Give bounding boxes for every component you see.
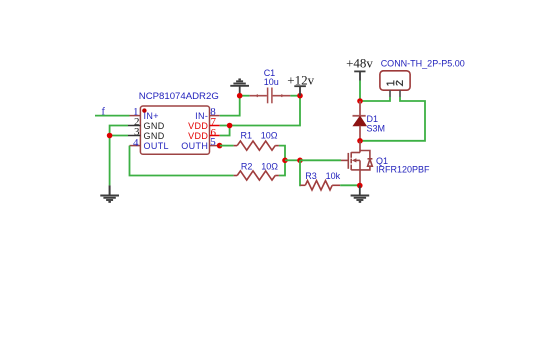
svg-text:GND: GND (144, 131, 165, 141)
junction GND pins (107, 133, 113, 139)
svg-text:R3: R3 (305, 171, 317, 181)
Q1 body arrow (352, 158, 357, 162)
svg-text:3: 3 (134, 126, 140, 138)
connector CONN-TH_2P-P5.00 body (380, 71, 410, 90)
wire node B to gate (300, 159, 341, 161)
connector pin 1 stub (389, 90, 391, 97)
wire R1 right to node A (279, 146, 285, 161)
pin 4 stub (130, 145, 141, 147)
svg-text:5: 5 (210, 136, 216, 148)
wire +48v to node (359, 81, 361, 102)
connector pin number 2 (rotated) (396, 80, 402, 85)
svg-text:+48v: +48v (346, 56, 373, 71)
svg-text:R1: R1 (241, 130, 253, 140)
wire pin8 to C1 left node (220, 96, 240, 116)
connector pin number 1 (rotated) (387, 80, 394, 85)
power +12v symbol (294, 86, 306, 96)
pin 6 stub (210, 135, 220, 137)
svg-text:4: 4 (133, 137, 139, 149)
svg-text:IRFR120PBF: IRFR120PBF (376, 165, 430, 175)
pin 2 stub (128, 125, 140, 127)
svg-text:+12v: +12v (287, 73, 314, 88)
diode D1 (353, 101, 367, 141)
IC U1 NCP81074ADR2G body (140, 106, 209, 154)
junction VDD pins (227, 123, 233, 129)
svg-text:VDD: VDD (188, 131, 208, 141)
svg-text:S3M: S3M (367, 123, 386, 133)
power +48v symbol (354, 71, 365, 80)
node B junction (297, 158, 303, 164)
ground (below Q1) (351, 186, 370, 202)
pin 8 stub (210, 115, 220, 117)
junction +48 node (357, 98, 363, 104)
resistor R2 (234, 171, 279, 180)
wire pin6 VDD up to pin7 wire (220, 126, 230, 136)
pin 5 stub (210, 145, 220, 147)
svg-text:OUTL: OUTL (144, 141, 169, 151)
junction C1 left node (237, 93, 243, 99)
wire pin3 GND (110, 135, 128, 137)
junction cathode node (357, 138, 363, 144)
connector pin 2 stub (399, 90, 401, 97)
svg-text:10Ω: 10Ω (261, 162, 278, 172)
wire node B down to R3 (299, 160, 302, 185)
svg-text:NCP81074ADR2G: NCP81074ADR2G (139, 91, 219, 102)
svg-text:10k: 10k (326, 171, 341, 181)
svg-text:GND: GND (144, 121, 165, 131)
wire R3 to source node (340, 184, 360, 186)
svg-text:IN-: IN- (195, 111, 208, 121)
pin 1 stub (130, 115, 141, 117)
wire node A to node B (285, 159, 300, 161)
wire conn pin1 to +48 node (360, 97, 390, 101)
svg-text:IN+: IN+ (144, 111, 159, 121)
svg-text:10Ω: 10Ω (261, 130, 278, 140)
resistor R3 (300, 181, 340, 190)
svg-text:VDD: VDD (188, 121, 208, 131)
wire OUTH to R1 (220, 145, 234, 147)
wire GND junction down to ground (109, 136, 111, 186)
wire conn pin2 to cathode node (360, 97, 425, 141)
ground (top, near C1) (230, 79, 249, 95)
pin 7 stub (210, 125, 220, 127)
wire pin2 GND (110, 126, 128, 136)
transistor Q1 IRFR120PBF (341, 141, 372, 186)
junction at pin5 OUTH (217, 143, 223, 149)
svg-text:CONN-TH_2P-P5.00: CONN-TH_2P-P5.00 (381, 58, 465, 68)
resistor R1 (234, 141, 279, 150)
svg-text:R2: R2 (241, 162, 253, 172)
wire R2 right to node A (279, 160, 285, 175)
junction C1 right node (+12v) (297, 93, 303, 99)
capacitor C1 (242, 88, 300, 104)
pin 3 stub (128, 135, 140, 137)
node A junction (282, 158, 288, 164)
wire OUTL to R2 (130, 146, 234, 176)
wire f to pin1 (95, 115, 130, 117)
junction source node (357, 183, 363, 189)
svg-text:10u: 10u (264, 77, 279, 87)
ground (bottom left) (100, 185, 119, 202)
wire pin7 VDD to +12v (220, 96, 300, 126)
svg-text:OUTH: OUTH (181, 141, 208, 151)
